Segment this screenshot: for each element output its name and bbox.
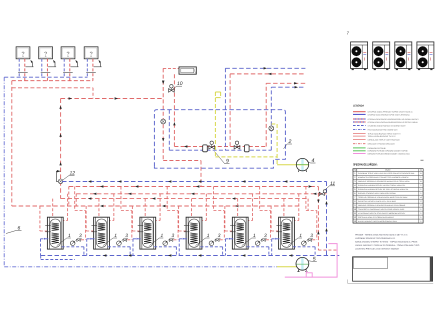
svg-text:TROJCESTNY SMESOVACI VENTIL ES: TROJCESTNY SMESOVACI VENTIL ESBE VRG131 …	[358, 208, 404, 211]
wire red drop FC4	[92, 59, 94, 81]
pump 3 of tank6	[302, 241, 307, 246]
pump group P2 with valve	[234, 141, 249, 152]
wire blue stub tank6	[272, 238, 280, 240]
svg-text:TEPELNE CERPADLO VZDUCH/VODA N: TEPELNE CERPADLO VZDUCH/VODA NIBE F2120-…	[358, 196, 408, 199]
arrows blue bottom	[103, 254, 106, 256]
wire red drop FC2	[46, 59, 48, 81]
arrows x163	[162, 81, 164, 84]
specification table	[353, 169, 423, 223]
wire blue stub tank4	[179, 238, 187, 240]
wire blue riser tank3	[132, 239, 134, 256]
svg-text:SPECIFIKACE ZAŘÍZENÍ :: SPECIFIKACE ZAŘÍZENÍ :	[353, 163, 378, 167]
svg-text:STUDENA VODA ROZVOD STUDENE VO: STUDENA VODA ROZVOD STUDENE VODY	[368, 124, 407, 127]
svg-text:KULOVY KOHOUT DN32 PLNOPRUTOKO: KULOVY KOHOUT DN32 PLNOPRUTOKOVY PAKA	[358, 220, 398, 223]
wire red trunk2 left drop	[75, 194, 77, 206]
wire red left riser	[11, 81, 13, 206]
wire blue pump line tank4	[200, 246, 222, 248]
wire red manifold lower	[12, 87, 93, 89]
wire blue to heat pumps A	[225, 67, 305, 69]
wire yellow top stub	[271, 123, 277, 125]
wire yellow U legs	[214, 92, 216, 157]
svg-text:KOMPAKTNI PREDAVACI STANICE TE: KOMPAKTNI PREDAVACI STANICE TEPLA MEIBES…	[358, 176, 409, 179]
label 10	[173, 81, 182, 89]
svg-text:EXPANZNI NADOBA REFLEX DE 33/1: EXPANZNI NADOBA REFLEX DE 33/10 STUDENA …	[358, 188, 408, 191]
wire red feed tank2 top	[98, 199, 100, 218]
svg-text:ZASOBNIK PRUDENT TEPLOMERAVEL: ZASOBNIK PRUDENT TEPLOMERAVEL 6.1	[355, 237, 396, 240]
arrow down x163 top	[162, 81, 164, 84]
wire blue pump line tank3	[154, 246, 176, 248]
wire blue riser tank5	[224, 239, 226, 256]
wire blue to heat pumps B	[271, 86, 305, 88]
wire blue riser tank6	[271, 239, 273, 256]
wire blue stub tank2	[87, 238, 95, 240]
svg-text:ZAJISTENI PRETLAK 2,5/2 CERVEN: ZAJISTENI PRETLAK 2,5/2 CERVENY KABINET	[355, 247, 400, 250]
label 3 of tank2	[122, 233, 129, 240]
label 3 of tank5	[260, 233, 267, 240]
heat pump unit 3	[395, 42, 412, 70]
wire red feed tank2 left	[85, 206, 87, 231]
wire red feed tank6 right	[298, 194, 300, 221]
wire blue pump line	[169, 149, 271, 151]
svg-text:CIRKULACE TV ROZVOD CIRKULACNI: CIRKULACE TV ROZVOD CIRKULACNI	[368, 143, 395, 146]
sensor tick upper FC3	[71, 66, 79, 68]
svg-text:PRIMAR - HORKA VODA FAKTICKE 5: PRIMAR - HORKA VODA FAKTICKE 55/45 C (BY…	[355, 233, 407, 236]
pink tag rect	[306, 273, 312, 277]
arrows red trunk 3	[88, 197, 91, 199]
label 3 of tank3	[168, 233, 175, 240]
wire yellow to vessel 4	[277, 164, 308, 166]
wire red to heat pumps A	[230, 73, 305, 75]
label 5	[308, 256, 317, 262]
wire red manifold upper	[12, 80, 93, 82]
arrow up x174	[173, 122, 175, 125]
arrow blue B	[295, 86, 298, 88]
valve actuator at FC4	[99, 60, 101, 67]
svg-text:EXPANZNI POTRUBI EXPANZNI NADO: EXPANZNI POTRUBI EXPANZNI NADOBY STUDENA…	[368, 152, 411, 155]
svg-text:ZARUJK ZARIZENI TV TEPELNA TRI: ZARUJK ZARIZENI TV TEPELNA TRI CERPADLA …	[355, 244, 419, 247]
storage tank 2	[91, 217, 109, 249]
label 1 of tank2	[103, 233, 117, 246]
wire red trunk 1	[69, 186, 319, 188]
valve of tank2	[123, 239, 127, 241]
arrows red trunk 1	[100, 185, 103, 187]
wire blue riser right of pumps	[270, 87, 272, 150]
wire blue bottom jog	[40, 256, 42, 260]
legend block	[353, 111, 419, 156]
label 1 of tank1	[57, 233, 71, 246]
svg-text:POJISTNY VENTIL DUCO 1/2 x 3/4: POJISTNY VENTIL DUCO 1/2 x 3/4 6 BAR	[358, 200, 397, 203]
valve on x163	[161, 119, 166, 124]
pump 3 of tank2	[117, 241, 122, 246]
wire red pump drop bay6	[305, 187, 307, 211]
label 11	[325, 181, 336, 191]
arrows blue trunk	[88, 180, 91, 182]
motor valve 10	[169, 85, 175, 93]
storage tank 4	[184, 217, 202, 249]
label 1 of tank4	[196, 233, 210, 246]
wire red drop x201	[200, 161, 202, 187]
arrow red A	[268, 73, 271, 75]
svg-text:OBEHOVE CERPADLO GRUNDFOS MAGN: OBEHOVE CERPADLO GRUNDFOS MAGNA3 25-60 T…	[358, 180, 410, 183]
heat pump unit 2	[373, 42, 390, 70]
wire red trunk 4	[12, 205, 301, 207]
wire red pump drop bay2	[120, 187, 122, 211]
wire pink circuit	[285, 244, 337, 278]
valve of tank3	[169, 239, 173, 241]
wire red pump drop bay3	[166, 187, 168, 211]
sensor tick lower FC1	[18, 72, 28, 74]
valve actuator at FC3	[75, 60, 77, 67]
wire red bottom link	[318, 249, 337, 251]
wire red trunk1 right riser	[317, 187, 319, 251]
fan-coil unit FC4	[84, 47, 98, 59]
svg-text:TEPLA VODA ROZVOD TV 55 C: TEPLA VODA ROZVOD TV 55 C	[368, 135, 397, 138]
sensor tick upper FC4	[94, 66, 102, 68]
arrows red right riser	[317, 200, 319, 203]
wire blue pump line tank6	[293, 246, 315, 248]
wire blue drop FC4	[86, 59, 88, 77]
svg-text:VYVAZOVACI VENTIL STAD DN32 S: VYVAZOVACI VENTIL STAD DN32 S MERICIMI V…	[358, 212, 406, 215]
arrows blue riser	[325, 201, 327, 204]
arrows on riser x60	[59, 106, 61, 109]
svg-text:OTOPNA VODA VRATNA TOPNE VODY: OTOPNA VODA VRATNA TOPNE VODY ZPATECKA	[368, 113, 411, 116]
wire red trunk 2	[76, 193, 326, 195]
storage tank 6	[276, 217, 294, 249]
valve actuator at FC2	[53, 60, 55, 67]
wire red feed tank2 right	[113, 194, 115, 221]
paper edge line	[348, 282, 434, 284]
wire red pump drop bay1	[74, 187, 76, 211]
wire red feed tank4 right	[205, 194, 207, 221]
svg-text:ZPETNA KLAPKA S FILTREM DN32 M: ZPETNA KLAPKA S FILTREM DN32 MOSAZ	[358, 216, 394, 219]
sensor tick lower FC2	[41, 72, 51, 74]
wire yellow bottom	[215, 156, 277, 158]
wire blue trunk right riser	[326, 182, 328, 256]
expansion vessel 4	[296, 158, 308, 172]
small mark above table	[421, 159, 424, 161]
wire red pump drop bay4	[212, 187, 214, 211]
check valve unit 12	[56, 170, 63, 184]
label 1 of tank5	[242, 233, 256, 246]
pump 3 of tank5	[255, 241, 260, 246]
heat pump unit 1	[351, 42, 368, 70]
svg-text:TEPLA VODA ROZVOD TEPLE VODY T: TEPLA VODA ROZVOD TEPLE VODY TV	[368, 132, 402, 135]
svg-text:OBEHOVE CERPADLO GRUNDFOS MAGN: OBEHOVE CERPADLO GRUNDFOS MAGNA3 32-80 P…	[358, 204, 406, 207]
wire blue riser tank4	[178, 239, 180, 256]
svg-text:OTOPNA VODA VRATNA KONDENZATOR: OTOPNA VODA VRATNA KONDENZATORU HP ZPETN…	[368, 121, 419, 124]
svg-text:ROZVOD STUDENE VODY DN50 OCEL: ROZVOD STUDENE VODY DN50 OCEL POZINK	[358, 192, 397, 195]
wire red trunk3 right drop	[307, 199, 309, 211]
wire yellow to vessel 5	[277, 266, 297, 268]
storage tank 5	[230, 217, 248, 249]
wire red riser right of pumps	[265, 83, 267, 146]
wire red feed tank1 top	[52, 199, 54, 218]
wire blue pump line tank5	[247, 246, 269, 248]
fan-coil unit FC1	[16, 47, 30, 59]
svg-text:CIRKULACE TEPLE VODY ROZVOD: CIRKULACE TEPLE VODY ROZVOD	[368, 138, 401, 141]
svg-text:OTOPNA VODA PRIVOD KONDENZATOR: OTOPNA VODA PRIVOD KONDENZATORU HP OKRUH…	[368, 118, 420, 121]
sensor tick lower FC3	[63, 72, 73, 74]
label 3 of tank1	[75, 233, 82, 240]
wire red under unit heater	[173, 74, 175, 146]
arrow red B	[294, 82, 297, 84]
wire red feed tank3 top	[144, 199, 146, 218]
svg-text:ZASOBNIK TEPLE VODY OKC 500 NT: ZASOBNIK TEPLE VODY OKC 500 NTRR SOLAR D…	[358, 172, 415, 175]
label 3 of tank4	[214, 233, 221, 240]
wire blue riser tank1	[40, 239, 42, 256]
svg-text:LEGENDA: LEGENDA	[353, 105, 364, 108]
arrow red pump line	[184, 145, 187, 147]
valve of tank6	[308, 239, 312, 241]
svg-text:EXPANZNI POTRUBI EXPANZNI NADO: EXPANZNI POTRUBI EXPANZNI NADOBY TOPENI	[368, 150, 408, 153]
arrows red trunk 4	[100, 205, 103, 207]
wire red pump line	[174, 146, 266, 148]
svg-text:BAKALOVANOU OTOPNY SYSTEM - TO: BAKALOVANOU OTOPNY SYSTEM - TOPNA VODA 5…	[355, 240, 417, 243]
heat pump unit 4	[417, 42, 434, 70]
storage tank 3	[138, 217, 156, 249]
fan-coil unit FC3	[61, 47, 75, 59]
wire red drop FC1	[24, 59, 26, 81]
wire blue stub tank5	[225, 238, 233, 240]
wire red trunk upper	[61, 98, 164, 100]
wire red feed tank3 right	[159, 194, 161, 221]
wire red trunk1 left drop	[68, 187, 70, 207]
valve of tank4	[216, 239, 220, 241]
wire red horiz y160	[163, 160, 201, 162]
wire red feed tank1 right	[67, 194, 69, 221]
wire red pump drop bay5	[259, 187, 261, 211]
wire red feed tank5 right	[252, 194, 254, 221]
wire red feed tank4 top	[190, 199, 192, 218]
expansion vessel 5	[296, 257, 309, 271]
wire red to heat pumps B	[266, 82, 305, 84]
wire red riser x60	[60, 99, 62, 199]
wire red feed tank4 left	[178, 206, 180, 231]
wire blue trunk	[62, 181, 327, 183]
pump 3 of tank3	[163, 241, 168, 246]
sensor tick upper FC2	[48, 66, 56, 68]
wire red feed tank6 top	[283, 199, 285, 218]
arrow on upper trunk	[69, 97, 72, 99]
svg-text:EXPANZNI POTRUBI: EXPANZNI POTRUBI	[368, 147, 387, 150]
valve actuator at FC1	[30, 60, 32, 67]
blue boundary box 2	[154, 110, 285, 169]
storage tank 1	[45, 217, 63, 249]
arrows red trunk 2	[93, 193, 96, 195]
svg-text:EXPANZNI NADOBA REFLEX NG 25/6: EXPANZNI NADOBA REFLEX NG 25/6 TOPNA VOD…	[358, 184, 405, 187]
wire blue inner vertical	[168, 110, 170, 151]
wire red trunk 3	[61, 198, 309, 200]
arrow blue A	[264, 67, 267, 69]
wire yellow riser	[276, 124, 278, 165]
wire red drop FC3	[69, 59, 71, 81]
wire red drop A	[229, 74, 231, 147]
notes text block	[355, 233, 419, 250]
wire red feed tank6 left	[270, 206, 272, 231]
wire blue stub tank1	[41, 238, 49, 240]
valve 11	[319, 190, 326, 196]
pump 3 of tank1	[70, 241, 75, 246]
wire blue return line 6 horizontal	[4, 266, 277, 268]
wire blue drop A	[224, 68, 226, 150]
wire blue manifold	[4, 76, 87, 78]
fan-coil unit FC2	[39, 47, 53, 59]
label 2	[284, 139, 293, 149]
wire blue bottom trunk	[41, 255, 340, 257]
svg-text:PITNA VODA ROZVOD PITNE STUDEN: PITNA VODA ROZVOD PITNE STUDENE VODY	[368, 129, 399, 132]
title block	[353, 257, 433, 281]
label 1 of tank3	[149, 233, 163, 246]
sensor tick lower FC4	[86, 72, 96, 74]
label 6	[6, 226, 22, 234]
valve of tank5	[262, 239, 266, 241]
label 12	[63, 171, 76, 181]
pump group P1 with valve	[203, 141, 215, 152]
wire blue pump line tank1	[62, 246, 84, 248]
wire red branch riser	[92, 88, 94, 99]
valve on blue riser	[269, 126, 274, 131]
wire red feed tank5 top	[237, 199, 239, 218]
wire blue drop FC3	[63, 59, 65, 77]
svg-text:OTOPNA VODA PRIVOD TOPNE VODY: OTOPNA VODA PRIVOD TOPNE VODY 55/45 C	[368, 111, 414, 114]
wire blue drop FC2	[41, 59, 43, 77]
unit heater box	[179, 67, 196, 74]
wire red stub to unit heater	[163, 67, 179, 69]
label 1 of tank6	[288, 233, 302, 246]
wire blue pump line tank2	[108, 246, 130, 248]
sensor tick upper FC1	[26, 66, 34, 68]
wire red vertical x163	[162, 68, 164, 160]
wire blue riser tank2	[86, 239, 88, 256]
wire blue stub tank3	[133, 238, 141, 240]
wire blue return line 6 vertical	[3, 77, 5, 267]
wire red feed tank5 left	[224, 206, 226, 231]
wire blue drop FC1	[18, 59, 20, 77]
valve of tank1	[77, 239, 81, 241]
wire red feed tank1 left	[39, 206, 41, 231]
pump 3 of tank4	[209, 241, 214, 246]
label 4	[307, 158, 315, 164]
label 3 of tank6	[307, 233, 314, 240]
wire red feed tank3 left	[131, 206, 133, 231]
label 9	[215, 152, 230, 165]
